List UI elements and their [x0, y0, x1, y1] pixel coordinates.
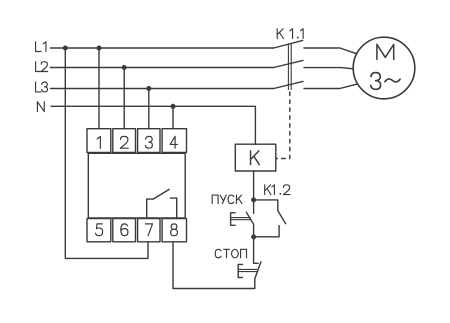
start button lower wire [253, 224, 255, 237]
motor 3-phase digit [371, 73, 381, 90]
stop button actuator bracket [238, 264, 242, 277]
motor M letter [377, 44, 394, 59]
wire L3 [51, 88, 274, 90]
junction L2-T2 [122, 65, 127, 70]
junction N-T4 [171, 104, 176, 109]
relay internal contact blade [153, 189, 169, 199]
wire T4 drop [172, 106, 174, 128]
coil K letter [251, 151, 260, 165]
contactor K1.1 blade phase L2 [274, 60, 303, 67]
relay terminal 6 [113, 219, 136, 242]
wire T3 drop [148, 89, 150, 129]
junction start-bottom [251, 234, 256, 239]
relay terminal 1 [87, 129, 111, 153]
relay terminal 4 [162, 129, 186, 153]
start button actuator bracket [231, 213, 236, 226]
wire coil K to start button [253, 171, 255, 200]
motor tilde [385, 79, 400, 82]
wire contact to motor phase 3 [304, 84, 356, 88]
junction L3-T3 [146, 86, 151, 91]
wire L2 [51, 67, 274, 69]
junction L1-bypass [63, 46, 68, 51]
relay internal contact pin7 [147, 199, 153, 218]
motor M circle [353, 37, 415, 99]
wire T1 drop [98, 48, 100, 129]
node L2 label [36, 62, 48, 72]
wire T2 drop [123, 68, 125, 129]
contactor K1.1 blade phase L3 [274, 81, 303, 88]
stop button STOP label [215, 249, 246, 258]
stop button actuator rod [238, 269, 256, 271]
relay terminal 7 [138, 219, 160, 242]
contactor K1.1 blade phase L1 [274, 40, 303, 48]
auxiliary contact K1.2 label [265, 185, 290, 195]
stop button upper wire [254, 237, 259, 263]
wire L1 [51, 47, 274, 49]
start button PUSK label [212, 195, 242, 204]
junction start-top [251, 197, 256, 202]
wire bypass L1 to terminal 7 [65, 48, 148, 258]
contactor K1.1 dashed link to coil [276, 92, 290, 159]
relay internal contact pin8 [170, 198, 176, 218]
auxiliary contact K1.2 upper wire [254, 200, 278, 211]
relay terminal 8 [162, 219, 186, 242]
relay body [88, 153, 185, 218]
coil K box [235, 144, 275, 171]
junction L1-T1 [97, 46, 102, 51]
contactor K1.1 linkage bar [288, 43, 291, 90]
auxiliary contact K1.2 lower wire [254, 226, 280, 237]
stop button blade [255, 262, 261, 279]
node L1 label [36, 42, 46, 52]
relay terminal 2 [113, 129, 136, 153]
start button blade [246, 212, 253, 224]
wire contact to motor phase 1 [304, 48, 356, 54]
start button upper wire [253, 200, 255, 213]
relay terminal 5 [87, 219, 111, 242]
node L3 label [36, 82, 48, 92]
contactor K1.1 label [277, 29, 303, 39]
relay terminal 3 [138, 129, 160, 153]
wire terminal 8 to stop button [173, 242, 255, 289]
node N label [37, 102, 44, 112]
wire N [51, 106, 255, 144]
wire contact to motor phase 2 [304, 68, 353, 69]
start button actuator rod [231, 218, 250, 220]
auxiliary contact K1.2 blade [278, 211, 286, 224]
